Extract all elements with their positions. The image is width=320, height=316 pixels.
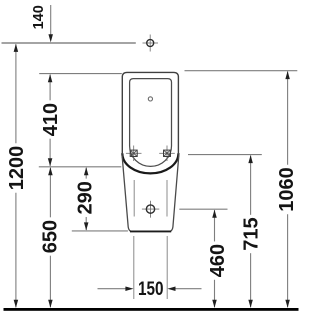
svg-text:715: 715: [241, 217, 263, 250]
svg-text:410: 410: [40, 103, 62, 136]
dimension 150 line left segment: [98, 288, 127, 290]
dimension 150 line right segment: [175, 288, 202, 290]
urinal outer body: [122, 72, 178, 153]
bowl outer curve: [122, 153, 178, 173]
pedestal sides: [122, 153, 179, 231]
dimension 1200 line: [15, 44, 17, 143]
right fixing square: [159, 146, 175, 162]
dimension 460 line: [214, 210, 216, 241]
siphon cover edge right: [166, 180, 168, 217]
mounting point symbol (circle with crosshair): [143, 35, 159, 52]
ref line ceramic top left: [39, 73, 122, 75]
small hole circle in bowl: [148, 97, 152, 101]
dimension 150 extension line right: [166, 236, 168, 299]
svg-text:140: 140: [31, 5, 47, 29]
dimension 410 line: [49, 75, 51, 101]
ref line ceramic bottom left: [72, 230, 128, 232]
mounting reference line: [2, 42, 136, 44]
inner rim outline: [130, 79, 172, 167]
dimension 715 line: [250, 156, 252, 215]
dimension 140 line: [50, 5, 52, 35]
left fixing square: [126, 146, 142, 162]
dimension 150 extension line left: [133, 236, 135, 299]
dimension 290 line: [85, 168, 87, 179]
outlet symbol (circle with crosshair): [142, 201, 159, 218]
ref line bowl bottom left: [39, 166, 122, 168]
svg-text:460: 460: [207, 244, 229, 277]
svg-text:650: 650: [40, 220, 62, 253]
ref line ceramic top right: [185, 70, 298, 72]
dimension 650 line: [49, 168, 51, 218]
svg-text:290: 290: [75, 181, 97, 214]
svg-text:1200: 1200: [6, 146, 28, 191]
ref line bowl bottom right: [188, 154, 262, 156]
floor line: [4, 308, 299, 311]
ref line outlet right: [179, 208, 227, 210]
dimension 1060 line: [287, 72, 289, 165]
svg-text:1060: 1060: [276, 167, 298, 212]
pedestal bottom edge: [130, 230, 171, 232]
siphon cover edge left: [133, 180, 135, 217]
svg-text:150: 150: [138, 279, 164, 300]
